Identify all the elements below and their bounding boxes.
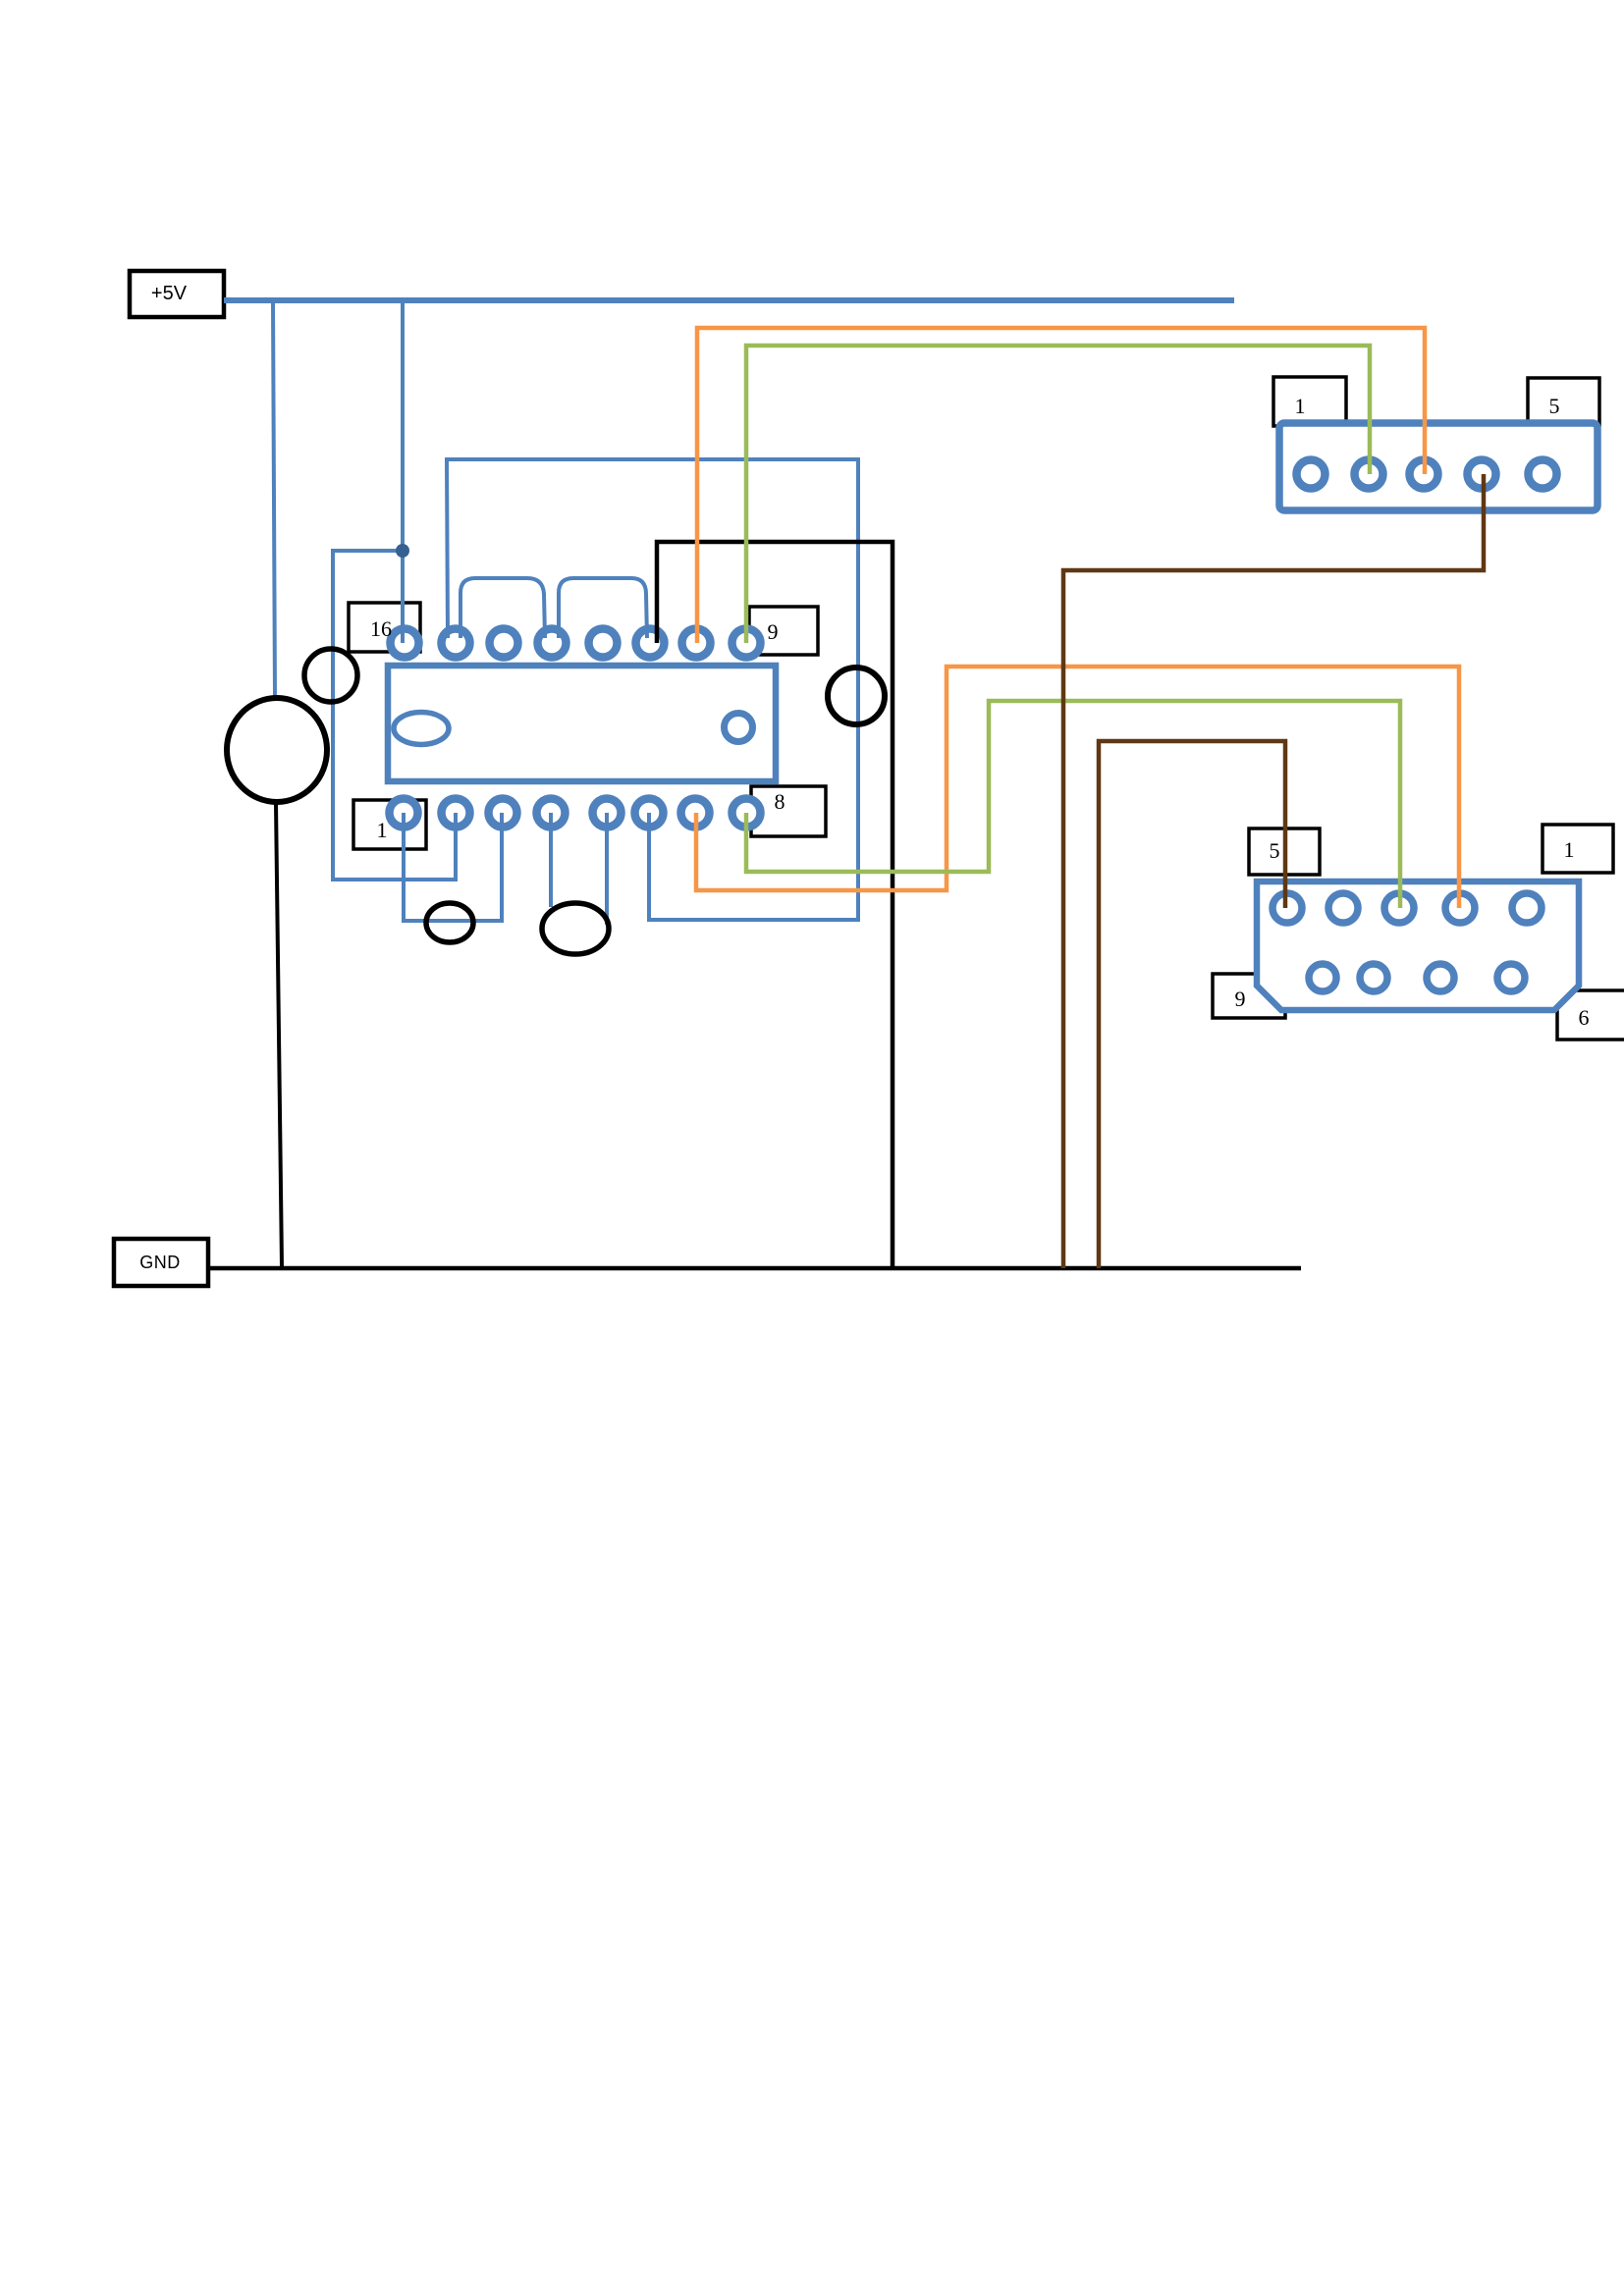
svg-text:+5V: +5V (151, 283, 188, 304)
svg-text:9: 9 (768, 619, 779, 644)
svg-text:GND: GND (139, 1253, 181, 1272)
svg-text:1: 1 (1295, 394, 1306, 418)
svg-text:1: 1 (377, 818, 388, 842)
svg-text:1: 1 (1564, 837, 1575, 862)
svg-text:5: 5 (1270, 838, 1280, 863)
svg-text:6: 6 (1579, 1005, 1590, 1030)
svg-text:16: 16 (370, 616, 392, 641)
svg-text:8: 8 (775, 789, 785, 814)
svg-text:5: 5 (1549, 394, 1560, 418)
svg-text:9: 9 (1235, 987, 1246, 1011)
